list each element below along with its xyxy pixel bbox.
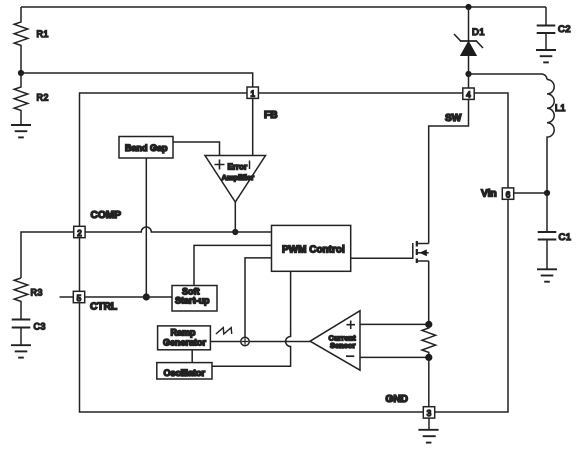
svg-text:C2: C2: [558, 24, 571, 35]
summing node: [241, 337, 249, 345]
wire pin4 down to MOSFET drain: [429, 100, 469, 244]
node sense resistor top: [425, 321, 432, 328]
node SW junction below D1: [465, 71, 471, 77]
wire CTRL line pin5 to soft start: [85, 296, 172, 298]
svg-text:Sensor: Sensor: [330, 341, 356, 350]
ground (below C1): [537, 269, 557, 281]
pin 4 SW: [463, 88, 474, 99]
svg-text:Vin: Vin: [481, 189, 497, 200]
wire ramp generator to summer: [210, 341, 240, 343]
wire pin4 to SW junction: [468, 74, 470, 88]
wire summer to current sensor output: [249, 341, 310, 343]
ground (below pin 3): [428, 418, 430, 430]
svg-text:5: 5: [77, 294, 82, 303]
Soft Start-up block: [172, 286, 217, 312]
Band Gap block: [119, 137, 173, 159]
top rail wire: [21, 6, 546, 8]
wire soft start to PWM: [194, 245, 272, 285]
wire error amp output to COMP line: [234, 202, 236, 232]
resistor Rsense: [422, 324, 436, 357]
PWM Control block: [272, 225, 351, 271]
op-amp U1 error amplifier: [205, 156, 266, 203]
svg-text:2: 2: [77, 229, 82, 238]
wire current sensor - input: [360, 356, 429, 358]
pin 2 COMP: [74, 226, 85, 237]
svg-text:COMP: COMP: [91, 210, 122, 221]
wire MOSFET source to sense resistor: [428, 261, 430, 324]
wire sense resistor to GND pin 3: [428, 357, 430, 406]
pin 6 Vin: [502, 188, 513, 199]
wire Band Gap to error amp + input: [173, 142, 220, 156]
svg-text:R3: R3: [31, 288, 43, 298]
svg-text:6: 6: [506, 190, 511, 199]
pin 3 GND: [423, 407, 434, 418]
svg-text:Band Gap: Band Gap: [125, 143, 168, 153]
node top rail / D1 junction: [465, 4, 471, 10]
sawtooth waveform symbol: [216, 328, 232, 334]
wire pin2 to R3: [21, 232, 74, 278]
inductor L1: [547, 80, 554, 194]
node sense resistor bottom: [425, 354, 432, 361]
pin 1 FB: [247, 87, 258, 98]
svg-text:Start-up: Start-up: [175, 296, 210, 306]
svg-text:FB: FB: [264, 110, 278, 121]
op-amp current sensor: [310, 311, 360, 371]
IC block outline: [80, 93, 509, 412]
wire Band Gap down to CTRL line: [145, 158, 147, 297]
svg-text:SW: SW: [445, 113, 462, 124]
diode D1 (schottky): [468, 7, 470, 41]
CTRL stub wire left of pin 5: [60, 296, 74, 298]
wire current sensor + input: [360, 323, 429, 325]
Ramp Generator block: [158, 326, 211, 350]
transistor Q1 power MOSFET: [351, 243, 413, 258]
svg-text:C3: C3: [34, 322, 46, 332]
svg-text:Generator: Generator: [163, 338, 207, 348]
svg-text:CTRL: CTRL: [90, 302, 117, 313]
pin 5 CTRL: [73, 291, 84, 302]
capacitor C1: [546, 193, 548, 232]
resistor R1: [14, 7, 28, 73]
wire SW junction to L1: [469, 74, 548, 80]
capacitor C3: [12, 320, 31, 328]
ground (below R2): [11, 125, 31, 137]
svg-text:R2: R2: [37, 93, 49, 103]
wire pin 6 to Vin junction: [514, 192, 547, 194]
ground (below C3): [11, 345, 31, 357]
svg-text:PWM Control: PWM Control: [282, 245, 345, 256]
svg-text:Amplifier: Amplifier: [222, 173, 255, 182]
Oscillator block: [157, 363, 212, 379]
svg-text:L1: L1: [555, 103, 566, 113]
node CTRL junction: [143, 293, 150, 300]
svg-text:C1: C1: [559, 232, 572, 243]
ground (below C2): [536, 50, 556, 62]
svg-text:4: 4: [466, 91, 471, 100]
wire pin1 FB down to error amp: [252, 98, 254, 156]
svg-text:1: 1: [251, 90, 256, 99]
node Vin junction: [544, 190, 550, 196]
node R1-R2 junction: [18, 70, 24, 76]
resistor R2: [14, 73, 28, 125]
svg-text:D1: D1: [472, 27, 485, 38]
svg-text:Ramp: Ramp: [171, 328, 197, 338]
resistor R3: [14, 278, 28, 319]
svg-text:Oscillator: Oscillator: [164, 368, 206, 378]
svg-text:3: 3: [427, 409, 432, 418]
svg-text:R1: R1: [37, 29, 49, 39]
wire COMP line with hop over bandgap line: [85, 227, 271, 232]
wire summer to PWM third input: [245, 258, 272, 337]
svg-text:Error: Error: [228, 163, 248, 172]
capacitor C2: [545, 7, 547, 25]
wire FB rail to pin 1: [21, 73, 253, 87]
wire PWM bottom to oscillator with hop: [212, 271, 291, 366]
wire ramp generator to oscillator: [191, 350, 193, 363]
svg-text:GND: GND: [385, 394, 408, 405]
